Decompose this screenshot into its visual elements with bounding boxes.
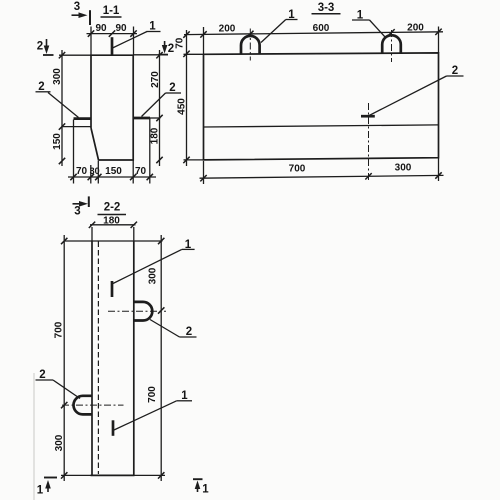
svg-text:3-3: 3-3: [318, 2, 335, 14]
title 3-3: [312, 2, 341, 14]
svg-text:1: 1: [185, 239, 192, 251]
block outline 3-3: [204, 53, 439, 160]
svg-text:90: 90: [115, 23, 127, 34]
svg-text:1: 1: [202, 484, 209, 496]
label 2 right (1-1): [142, 82, 182, 117]
body outline 2-2: [91, 227, 93, 241]
bottom dimension 70 30 150 70: [68, 119, 156, 184]
centerline left loop: [62, 404, 124, 406]
item 2 centerline (3-3): [368, 103, 370, 182]
section marker 3 (2-2): [73, 196, 89, 217]
body 2-2 top extension: [65, 240, 163, 242]
lifting loop A: [241, 36, 260, 54]
section marker 1 left: [37, 478, 57, 497]
label 1 leader (view 1-1): [113, 21, 161, 49]
svg-text:200: 200: [219, 24, 236, 35]
svg-text:600: 600: [313, 23, 330, 34]
centerline right loop: [108, 310, 166, 312]
bottom dimension 700 300: [200, 159, 444, 185]
item 2 plate right (1-1): [133, 117, 160, 120]
left dim chain 2-2: [54, 235, 68, 481]
bottom extension line 2-2: [61, 474, 165, 476]
svg-text:300: 300: [148, 267, 159, 284]
svg-text:2: 2: [39, 369, 45, 381]
label 1 bottom (2-2): [114, 390, 192, 430]
svg-text:2: 2: [168, 43, 174, 55]
svg-text:2-2: 2-2: [104, 202, 121, 214]
section marker 3 top: [72, 1, 91, 25]
left dim chain 1-1: [52, 50, 91, 166]
section marker 2 right: [159, 41, 175, 55]
svg-text:1-1: 1-1: [103, 5, 120, 17]
svg-text:3: 3: [74, 1, 80, 13]
dimension 180 (2-2): [89, 216, 137, 229]
svg-text:200: 200: [407, 23, 424, 34]
section marker 2 left: [37, 39, 54, 55]
right dim chain 2-2: [147, 235, 164, 481]
label 2 left (2-2): [36, 369, 81, 399]
top dimension 200 600 200: [184, 23, 443, 55]
hidden dashed line 2-2: [97, 242, 99, 475]
svg-text:70: 70: [135, 166, 147, 177]
label 2 (3-3): [369, 65, 464, 116]
svg-text:1: 1: [181, 390, 188, 402]
svg-text:700: 700: [54, 321, 65, 338]
svg-text:300: 300: [52, 68, 63, 85]
svg-text:270: 270: [150, 71, 161, 88]
svg-text:700: 700: [147, 386, 158, 403]
item 2 plate left (1-1): [74, 117, 92, 120]
svg-text:300: 300: [395, 163, 412, 174]
dimension 90 90: [87, 23, 138, 55]
middle line 3-3: [204, 125, 439, 127]
item 1 mark top (2-2): [111, 281, 114, 297]
svg-text:180: 180: [150, 127, 161, 144]
svg-text:90: 90: [95, 23, 107, 34]
scan artifact faint line: [33, 373, 35, 500]
svg-text:2: 2: [452, 65, 458, 77]
svg-text:1: 1: [37, 485, 44, 497]
lifting loop B: [382, 35, 401, 53]
item 2 loop right (2-2): [134, 302, 153, 321]
svg-text:2: 2: [186, 326, 192, 338]
body outline 1-1: [59, 55, 160, 160]
item 1 loop mark (edge-on): [111, 37, 114, 55]
label 1 top (2-2): [113, 239, 195, 284]
item 2 mark (3-3): [361, 115, 375, 118]
svg-text:2: 2: [37, 41, 43, 53]
label 1 left (3-3): [261, 9, 298, 43]
svg-text:3: 3: [74, 206, 80, 218]
svg-text:1: 1: [149, 21, 156, 33]
svg-text:70: 70: [175, 37, 186, 49]
section marker 1 right: [193, 479, 209, 495]
title 2-2: [98, 202, 127, 215]
left dim chain 3-3: [175, 30, 204, 166]
label 1 right (3-3): [352, 10, 386, 38]
svg-text:300: 300: [54, 434, 65, 451]
svg-text:700: 700: [289, 164, 306, 175]
centerline loop A: [249, 29, 251, 61]
item 2 loop left (2-2): [74, 396, 93, 415]
svg-text:70: 70: [76, 166, 88, 177]
right dim chain 1-1: [150, 50, 163, 166]
title 1-1: [101, 5, 122, 17]
svg-text:150: 150: [52, 133, 63, 150]
centerline loop B: [391, 30, 393, 62]
item 1 mark bottom (2-2): [112, 420, 115, 436]
svg-text:2: 2: [169, 82, 175, 94]
svg-text:150: 150: [105, 166, 122, 177]
svg-text:1: 1: [288, 9, 295, 21]
label 2 right (2-2): [150, 320, 197, 339]
svg-text:450: 450: [177, 98, 188, 115]
label 2 left (1-1): [36, 81, 79, 118]
